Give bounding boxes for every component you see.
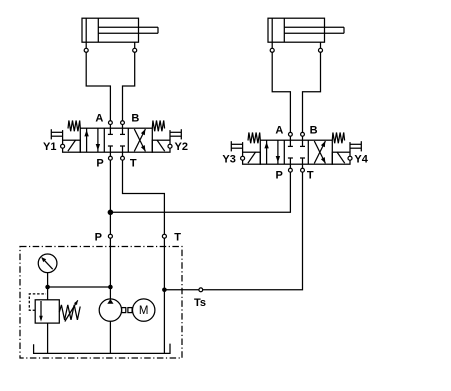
junction pressure line [108,210,114,216]
wire pump branch to relief valve and gauge [48,286,111,288]
svg-text:B: B [131,112,139,124]
svg-text:A: A [275,124,283,136]
relief valve V3 inlet wire [47,287,49,300]
svg-text:T: T [130,157,137,169]
solenoid Y2 electrical terminal [170,129,181,140]
solenoid Y4 electrical terminal [350,141,361,152]
svg-text:T: T [174,232,181,244]
wire valve V1 port P down to power unit P [109,160,111,234]
valve V1 center position blocked port T [120,146,125,156]
spring valve V1 right [152,121,164,132]
svg-text:P: P [95,232,102,244]
svg-text:Y4: Y4 [354,154,368,166]
spring valve V2 right [332,133,344,144]
svg-text:P: P [276,169,283,181]
relief valve V3 flow arrow [39,301,43,322]
solenoid Y4 coil box [332,152,352,164]
wire power unit P port to pump [109,238,111,299]
valve V1 center position blocked port A [108,125,113,135]
svg-text:Y2: Y2 [175,141,188,153]
svg-text:T: T [307,169,314,181]
valve V2 center position blocked port T [300,158,305,168]
coupling pump-motor [122,308,133,313]
solenoid Y1 coil box [61,140,81,152]
svg-text:Y3: Y3 [222,154,235,166]
motor M1 [133,299,155,321]
power unit port P circle [108,234,112,238]
valve V1 port circles A B P T [109,121,125,160]
valve V1 center position blocked port P [108,146,113,156]
valve V1 left position down-arrow [96,128,100,152]
junction at pump inlet branch [108,285,113,290]
solenoid Y2 coil box [152,140,172,152]
solenoid Y3 electrical terminal [231,141,242,152]
relief valve V3 spring [59,305,80,320]
valve V2 right position crossed arrows [314,141,325,163]
power unit port T circle [162,234,166,238]
valve V1 right position crossed arrows [134,129,145,151]
wire CYL1 rod port to valve V1 port B [123,52,135,120]
cylinder CYL2 body [268,18,325,42]
valve V1 body (4/3 way) [80,128,152,152]
pump P1 [99,299,121,321]
junction T line with Ts return [162,288,167,293]
valve V2 center position blocked port A [288,136,293,146]
valve V2 center position blocked port P [288,158,293,168]
valve V2 left position up-arrow [264,140,268,164]
wire pressure line junction to valve V2 port P [110,172,290,212]
spring valve V1 left [68,121,80,132]
valve V2 port circles A B P T [289,132,305,172]
pressure gauge [38,254,57,287]
node Ts circle [199,288,203,292]
cylinder CYL1 port circles [84,48,137,52]
cylinder CYL2 port stubs [272,42,320,48]
svg-text:M: M [139,305,149,317]
svg-text:B: B [310,124,318,136]
solenoid Y3 coil box [241,152,261,164]
relief valve V3 adjustment arrow [65,300,78,321]
relief valve V3 body [35,300,59,323]
spring valve V2 left [248,133,260,144]
svg-text:P: P [96,157,103,169]
valve V1 center position blocked port B [120,125,125,135]
cylinder CYL1 piston rod [98,27,158,33]
cylinder CYL1 body [82,18,139,42]
wire valve V1 port T to power unit T [123,160,165,234]
relief valve V3 outlet wire to tank [47,323,49,353]
svg-text:Y1: Y1 [43,141,56,153]
cylinder CYL1 port stubs [86,42,135,48]
svg-text:A: A [95,112,103,124]
relief valve V3 pilot line (dashed) [29,294,46,310]
cylinder CYL2 port circles [270,48,322,52]
wire CYL2 port A to valve V2 port A [272,52,290,132]
cylinder CYL2 piston rod [284,27,344,33]
wire CYL1 port A to valve V1 port A [86,52,110,120]
junction at gauge stem [45,285,50,290]
svg-text:Ts: Ts [194,297,206,309]
valve V2 center position blocked port B [300,136,305,146]
wire pump outlet to tank [109,321,111,353]
power unit enclosure (dash-dot) [20,247,182,359]
solenoid Y1 electrical terminal [51,129,62,140]
wire CYL2 rod port to valve V2 port B [303,52,321,132]
tank reservoir [34,344,170,354]
wire power unit T port to tank [163,238,165,353]
wire valve V2 port T to tank return Ts line [164,172,302,290]
valve V2 body (4/3 way) [260,140,332,164]
valve V2 left position down-arrow [276,140,280,164]
valve V1 left position up-arrow [84,128,88,152]
